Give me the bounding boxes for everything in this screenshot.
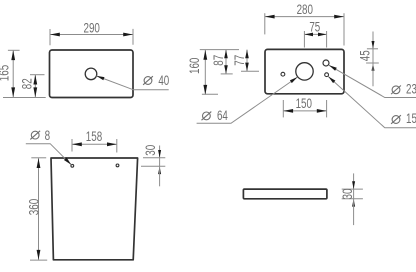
svg-text:15: 15 [406, 110, 416, 126]
svg-text:82: 82 [19, 78, 35, 89]
leader line Ø23 [329, 65, 416, 97]
svg-text:75: 75 [309, 18, 320, 34]
dimension 160 (left height) [186, 50, 218, 95]
dimension 150 (bottom) [283, 95, 326, 117]
label Ø 8 [30, 127, 50, 143]
svg-text:360: 360 [26, 199, 42, 216]
side view outline (360 tall) [51, 158, 138, 260]
hole Ø15 right [325, 73, 329, 77]
dimension 280 (top width) [265, 1, 344, 45]
svg-text:280: 280 [297, 1, 314, 17]
label Ø 15 [391, 110, 416, 126]
svg-text:45: 45 [357, 50, 373, 61]
svg-text:77: 77 [231, 55, 247, 66]
plate top view outline (280x160) [265, 49, 344, 93]
hole Ø64 [296, 63, 313, 80]
leader line Ø40 [96, 76, 168, 90]
leader line Ø64 [197, 77, 298, 123]
dimension 75 [304, 18, 326, 47]
hole Ø40 [85, 68, 97, 80]
hole Ø15 left [281, 72, 285, 76]
leader line Ø8 [26, 144, 72, 165]
dimension 290 (top width) [50, 19, 133, 45]
dimension 45 (right, outside arrows) [357, 32, 379, 87]
shared top extension line (view 2) [200, 49, 239, 51]
svg-text:160: 160 [186, 57, 202, 74]
bar side view outline (30 thick) [243, 189, 327, 199]
dimension 30 (top right, outside arrows) [141, 145, 165, 187]
dimension 77 [231, 50, 259, 72]
svg-text:87: 87 [210, 55, 226, 66]
hole Ø23 [323, 60, 329, 66]
dimension 87 [210, 50, 233, 74]
svg-text:158: 158 [86, 128, 103, 144]
svg-text:64: 64 [217, 107, 228, 123]
label Ø 40 [143, 72, 169, 88]
hole Ø8 left [71, 164, 74, 167]
dimension 165 (left height) [0, 50, 20, 97]
dimension 82 (hole height from bottom) [19, 75, 45, 98]
svg-text:290: 290 [84, 19, 101, 35]
svg-text:30: 30 [142, 145, 158, 156]
plate front view outline (290x165) [50, 50, 134, 98]
svg-text:150: 150 [296, 95, 313, 111]
dimension 30 (bar thickness, outside arrows) [339, 173, 363, 225]
dimension 158 [72, 128, 117, 153]
leader line Ø15 [328, 77, 416, 128]
svg-text:8: 8 [45, 127, 51, 143]
svg-text:23: 23 [406, 81, 416, 97]
svg-text:30: 30 [339, 188, 355, 199]
hole Ø8 right [116, 164, 119, 167]
svg-text:165: 165 [0, 65, 12, 82]
label Ø 64 [202, 107, 228, 123]
label Ø 23 [391, 81, 416, 97]
dimension 360 (left height) [26, 158, 48, 260]
svg-text:40: 40 [158, 72, 169, 88]
shared bottom extension line (view 1) [3, 97, 46, 99]
